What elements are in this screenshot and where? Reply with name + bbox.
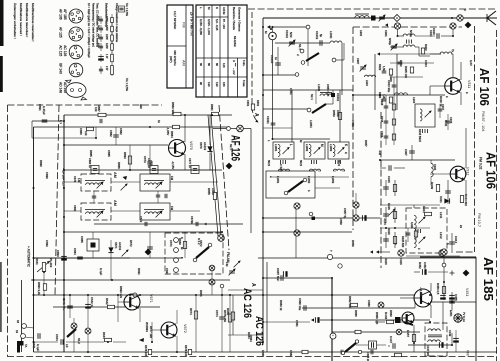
- capacitor C6x: [341, 350, 343, 355]
- capacitor C in box: [93, 169, 97, 171]
- label M: [264, 31, 268, 34]
- node (screened terminal): [439, 250, 445, 256]
- rail wire: [34, 294, 131, 296]
- table2 range: [222, 19, 226, 29]
- value: [336, 110, 340, 117]
- value C886: [79, 128, 83, 135]
- table2 uosc: [222, 82, 226, 87]
- trim arrow: [419, 237, 426, 244]
- bus wire: [21, 280, 23, 352]
- wire: [250, 129, 252, 234]
- value L1051: [309, 120, 313, 128]
- resistor R446: [387, 320, 394, 323]
- band label L: [289, 144, 293, 146]
- transistor V672: [161, 322, 177, 338]
- svg-text:AC 125: AC 125: [59, 45, 63, 56]
- wire: [398, 35, 405, 37]
- value: [451, 49, 455, 53]
- legend wire: [100, 34, 102, 42]
- rail wire: [430, 301, 476, 303]
- wire: [390, 76, 423, 78]
- svg-text:L311: L311: [439, 212, 443, 219]
- wire: [442, 302, 444, 330]
- svg-text:1 W: 1 W: [105, 54, 108, 59]
- svg-text:C314: C314: [454, 236, 458, 244]
- node A (continuation): [250, 283, 256, 287]
- wire: [388, 345, 390, 347]
- junction: [111, 279, 113, 281]
- value: [35, 258, 39, 265]
- wire: [295, 209, 297, 258]
- value: [387, 80, 391, 93]
- wire: [415, 46, 419, 48]
- value 0,1: [59, 120, 63, 124]
- wire: [430, 305, 432, 318]
- rail wire: [94, 223, 243, 225]
- cap box: [191, 166, 199, 174]
- capacitor C in box: [152, 169, 156, 171]
- node (open terminal): [303, 178, 307, 182]
- svg-text:R888: R888: [117, 162, 121, 169]
- table2 title: [232, 7, 236, 30]
- wire: [385, 95, 387, 114]
- value C901: [384, 30, 388, 37]
- capacitor C320: [383, 239, 389, 241]
- svg-text:FM: FM: [170, 206, 174, 211]
- wire: [221, 288, 223, 295]
- svg-text:C653: C653: [336, 110, 340, 117]
- value: [326, 84, 330, 97]
- inductor L304: [420, 109, 422, 121]
- junction: [331, 294, 333, 296]
- svg-text:X311: X311: [439, 196, 443, 203]
- capacitor C in box: [193, 169, 197, 171]
- coil box L674 (AM osc): [81, 174, 111, 191]
- core dashes: [336, 160, 341, 164]
- resistor R675: [228, 314, 231, 322]
- junction: [63, 169, 65, 171]
- switch S2 lever b: [288, 181, 303, 192]
- label AF 125: [59, 27, 63, 38]
- value: [37, 282, 41, 295]
- junction: [379, 94, 381, 96]
- junction: [63, 216, 65, 218]
- label LS: [65, 344, 69, 348]
- svg-text:FM: FM: [170, 176, 174, 181]
- value: [331, 176, 335, 184]
- value: [114, 242, 118, 249]
- svg-text:450V: 450V: [97, 16, 99, 22]
- svg-text:C641 47n: C641 47n: [62, 298, 66, 311]
- value R684: [249, 335, 253, 342]
- transistor V452: [402, 312, 414, 324]
- junction: [413, 342, 415, 344]
- label FM 10,7: [477, 213, 481, 227]
- rail wire: [263, 321, 310, 323]
- node (screened terminal): [71, 323, 77, 329]
- svg-text:R893: R893: [123, 152, 127, 159]
- rail wire: [34, 257, 184, 259]
- wire: [92, 232, 94, 239]
- junction: [451, 17, 453, 19]
- svg-text:5,9 - 6,35: 5,9 - 6,35: [215, 19, 219, 31]
- value: [454, 236, 458, 244]
- wire: [385, 114, 387, 129]
- resistor R318: [392, 104, 395, 110]
- value: [215, 310, 219, 317]
- svg-text:AF 106: AF 106: [477, 68, 491, 106]
- value 6021: [337, 160, 341, 167]
- label S1.2: [77, 338, 81, 344]
- resistor R651: [251, 104, 254, 110]
- wire: [232, 295, 234, 335]
- label FM: [170, 176, 174, 181]
- svg-text:X670: X670: [199, 142, 203, 149]
- label AUTOMATIC: [27, 246, 31, 268]
- capacitor C1021: [271, 123, 276, 125]
- junction: [63, 231, 65, 233]
- junction: [184, 114, 186, 116]
- inductor L451a: [428, 329, 441, 331]
- node (open terminal): [307, 108, 311, 112]
- transistor V670: [169, 140, 186, 157]
- inductor L306: [431, 163, 433, 176]
- label AM: [113, 172, 117, 178]
- wire: [184, 154, 186, 170]
- svg-text:C891: C891: [38, 104, 42, 111]
- cap box C691: [369, 341, 377, 349]
- junction: [352, 94, 354, 96]
- node d: [300, 49, 304, 53]
- value C659: [339, 218, 343, 225]
- svg-text:R316: R316: [380, 116, 384, 123]
- svg-text:-14,5V: -14,5V: [419, 287, 423, 296]
- wire: [385, 180, 387, 196]
- value: [118, 242, 122, 251]
- wire: [73, 318, 75, 323]
- value: [149, 326, 153, 338]
- table1 value: [169, 56, 173, 63]
- coil core: [320, 92, 332, 94]
- svg-text:R883 390: R883 390: [171, 102, 175, 115]
- svg-text:6021: 6021: [267, 160, 271, 167]
- wire: [333, 170, 345, 172]
- svg-text:C687 5µF: C687 5µF: [276, 268, 280, 281]
- svg-text:250V: 250V: [97, 25, 99, 31]
- resistor R305: [410, 67, 413, 73]
- wire: [184, 232, 186, 258]
- svg-text:180: 180: [222, 82, 226, 87]
- legend wire: [100, 43, 102, 51]
- value: [404, 66, 408, 79]
- svg-text:8/30p: 8/30p: [388, 38, 392, 45]
- svg-text:R688 120: R688 120: [375, 312, 379, 325]
- svg-text:Tol. ± 2,5%: Tol. ± 2,5%: [125, 3, 129, 17]
- svg-text:130: 130: [215, 82, 219, 87]
- value: [401, 236, 405, 248]
- svg-text:0,02F: 0,02F: [410, 222, 414, 229]
- wire: [25, 337, 34, 338]
- svg-text:L1021: L1021: [317, 84, 321, 92]
- legend note: [96, 3, 100, 47]
- coil box L1063 band K: [328, 142, 349, 159]
- value R659: [351, 240, 355, 247]
- table1 title: [190, 12, 194, 36]
- resistor R884: [173, 125, 180, 128]
- resistor R311: [425, 212, 432, 215]
- junction: [107, 341, 109, 343]
- resistor R302: [421, 48, 424, 54]
- value: [274, 57, 278, 61]
- resistor R685: [231, 312, 234, 320]
- svg-text:C659: C659: [339, 218, 343, 225]
- inductor L1011: [330, 41, 342, 43]
- wire: [129, 145, 131, 170]
- wire: [443, 255, 445, 265]
- junction: [43, 271, 45, 273]
- wire: [263, 74, 295, 76]
- node (IF out): [441, 249, 447, 255]
- value: [266, 116, 270, 124]
- value: [289, 32, 293, 38]
- node (screened terminal): [398, 250, 404, 256]
- svg-text:T: T: [329, 250, 333, 252]
- junction: [272, 138, 274, 140]
- IF section divider: [380, 112, 382, 268]
- svg-text:0,47µF: 0,47µF: [42, 106, 46, 115]
- type label AF 126: [229, 135, 241, 161]
- wire: [34, 341, 59, 343]
- capacitor C320: [382, 99, 387, 101]
- svg-text:K: K: [215, 7, 219, 9]
- value C882: [119, 128, 123, 135]
- svg-text:L: L: [289, 144, 293, 146]
- capacitor C684: [77, 257, 83, 259]
- node (screened terminal): [457, 15, 463, 21]
- value: [80, 236, 84, 243]
- node (screened terminal): [237, 125, 244, 132]
- wire: [309, 170, 321, 172]
- svg-text:130: 130: [207, 82, 211, 87]
- svg-text:FM: FM: [182, 22, 186, 27]
- rail wire: [64, 231, 222, 233]
- svg-text:X671: X671: [114, 242, 118, 249]
- capacitor C1015: [275, 63, 281, 65]
- switch S2.1 lever: [312, 104, 326, 113]
- wire: [228, 289, 263, 291]
- svg-text:+ AUTOMATIC: + AUTOMATIC: [27, 246, 31, 268]
- wire: [465, 128, 467, 150]
- value: [410, 222, 414, 229]
- svg-text:C1011: C1011: [285, 30, 289, 38]
- wire: [111, 181, 140, 183]
- wire: [336, 59, 344, 61]
- capacitor C611: [38, 333, 40, 339]
- type label AF 106: [477, 68, 491, 106]
- wire: [385, 129, 387, 145]
- value: [380, 131, 384, 138]
- cap box: [91, 166, 99, 174]
- junction: [139, 294, 141, 296]
- value: [336, 93, 340, 102]
- svg-text:0,1: 0,1: [59, 120, 63, 124]
- svg-text:AM: AM: [182, 60, 186, 66]
- wire: [393, 129, 395, 145]
- svg-text:R893 22k: R893 22k: [119, 286, 123, 299]
- resistor R655: [213, 193, 216, 200]
- trim arrow: [425, 111, 432, 118]
- value C653: [351, 120, 355, 127]
- svg-text:ZF / IF / MF / FI: ZF / IF / MF / FI: [190, 12, 194, 36]
- capacitor C893 (electrolytic): [61, 256, 67, 260]
- table2 uosc: [215, 82, 219, 87]
- label AD 148: [59, 82, 63, 93]
- value T: [329, 250, 333, 252]
- junction: [63, 279, 65, 281]
- table2 uosc: [215, 63, 219, 66]
- svg-text:FM: FM: [466, 350, 470, 355]
- svg-text:R676 100: R676 100: [144, 345, 148, 357]
- svg-text:f min.: f min.: [242, 60, 246, 67]
- coil core: [85, 209, 105, 211]
- svg-text:C677 1n: C677 1n: [188, 158, 192, 168]
- bus wire (tuning): [272, 40, 274, 139]
- value: [439, 232, 443, 239]
- wire: [64, 181, 81, 183]
- resistor R885: [87, 127, 94, 130]
- junction: [87, 294, 89, 296]
- value: [139, 216, 143, 223]
- wire: [451, 333, 453, 345]
- coil box L304 (FM osc): [415, 104, 435, 127]
- value K: [344, 152, 348, 154]
- value: [178, 238, 182, 245]
- value: [343, 208, 347, 219]
- node: [133, 293, 137, 297]
- value k3: [459, 225, 463, 228]
- wire: [209, 153, 211, 170]
- switch S1.2 lever: [67, 329, 76, 337]
- capacitor C309: [445, 191, 451, 193]
- svg-text:AC 126: AC 126: [63, 45, 67, 56]
- node (FM ant in 2): [450, 23, 456, 29]
- shield tie: [463, 270, 470, 277]
- value U311: [444, 120, 448, 127]
- legend wire: [100, 54, 102, 62]
- svg-text:C674: C674: [215, 310, 219, 317]
- capacitor C671: [196, 222, 198, 226]
- resistor R320: [393, 237, 396, 244]
- label AF 185: [63, 9, 67, 20]
- wire: [115, 127, 117, 145]
- voltage: [166, 127, 170, 135]
- svg-text:FM: FM: [225, 262, 229, 267]
- junction: [33, 279, 35, 281]
- label M: [180, 247, 184, 250]
- resistor R316: [392, 119, 395, 125]
- svg-text:R683 1k: R683 1k: [279, 300, 283, 311]
- value C304: [424, 60, 428, 67]
- wire: [430, 283, 432, 291]
- svg-text:R641: R641: [35, 258, 39, 265]
- svg-text:R682 680: R682 680: [348, 296, 352, 309]
- wire: [184, 115, 186, 142]
- table2 band: [215, 7, 219, 9]
- svg-text:390: 390: [139, 104, 143, 109]
- t2: [232, 68, 236, 75]
- junction: [129, 169, 131, 171]
- potentiometer R641: [37, 261, 50, 272]
- value: [298, 298, 302, 311]
- scan artifact bar: [0, 262, 2, 332]
- wire: [374, 54, 376, 110]
- svg-text:C901: C901: [384, 30, 388, 37]
- svg-text:C685: C685: [80, 236, 84, 243]
- value 12k: [94, 107, 98, 112]
- table2 uosc: [207, 82, 211, 87]
- capacitor C448 (electrolytic): [453, 338, 459, 342]
- value: [143, 156, 147, 163]
- value: [189, 308, 193, 315]
- transistor V312: [450, 166, 466, 182]
- junction: [374, 17, 376, 19]
- rail wire: [263, 217, 380, 219]
- arrowhead: [123, 176, 128, 180]
- wire: [439, 104, 441, 118]
- resistor R457: [412, 335, 415, 342]
- capacitor C907: [360, 65, 367, 72]
- value: [382, 66, 386, 72]
- label FM: [170, 206, 174, 211]
- label V451: [465, 288, 469, 296]
- svg-text:C452: C452: [423, 262, 427, 269]
- value: [56, 250, 60, 257]
- svg-text:R311: R311: [422, 206, 426, 213]
- chassis arrow: [311, 318, 314, 321]
- value: [109, 130, 113, 137]
- legend wire: [100, 66, 102, 74]
- wire: [385, 232, 387, 248]
- value L: [267, 140, 271, 142]
- legend wire: [111, 64, 113, 76]
- wire: [228, 334, 263, 336]
- svg-text:R302: R302: [424, 44, 428, 51]
- table2 hdr2: [232, 60, 236, 62]
- table1 value: [173, 50, 177, 66]
- svg-text:80: 80: [207, 63, 211, 66]
- label V671: [149, 294, 153, 303]
- svg-text:C683: C683: [45, 240, 49, 247]
- wire: [443, 267, 445, 282]
- switch S1.1 lever: [306, 53, 319, 61]
- capacitor C891: [42, 120, 48, 122]
- junction square: [331, 93, 335, 97]
- svg-text:1/5W: 1/5W: [105, 25, 108, 31]
- scan artifact bar: [0, 56, 3, 92]
- junction: [69, 294, 71, 296]
- wire: [393, 114, 395, 129]
- label V670: [189, 141, 193, 150]
- value L901: [359, 30, 363, 37]
- svg-text:R691: R691: [137, 268, 141, 275]
- svg-text:C304: C304: [380, 131, 384, 138]
- value: [211, 188, 215, 195]
- label AD 149: [63, 82, 67, 93]
- svg-text:C689: C689: [289, 350, 293, 357]
- legend value: [105, 66, 108, 71]
- band label M: [320, 144, 324, 147]
- wire: [326, 103, 333, 105]
